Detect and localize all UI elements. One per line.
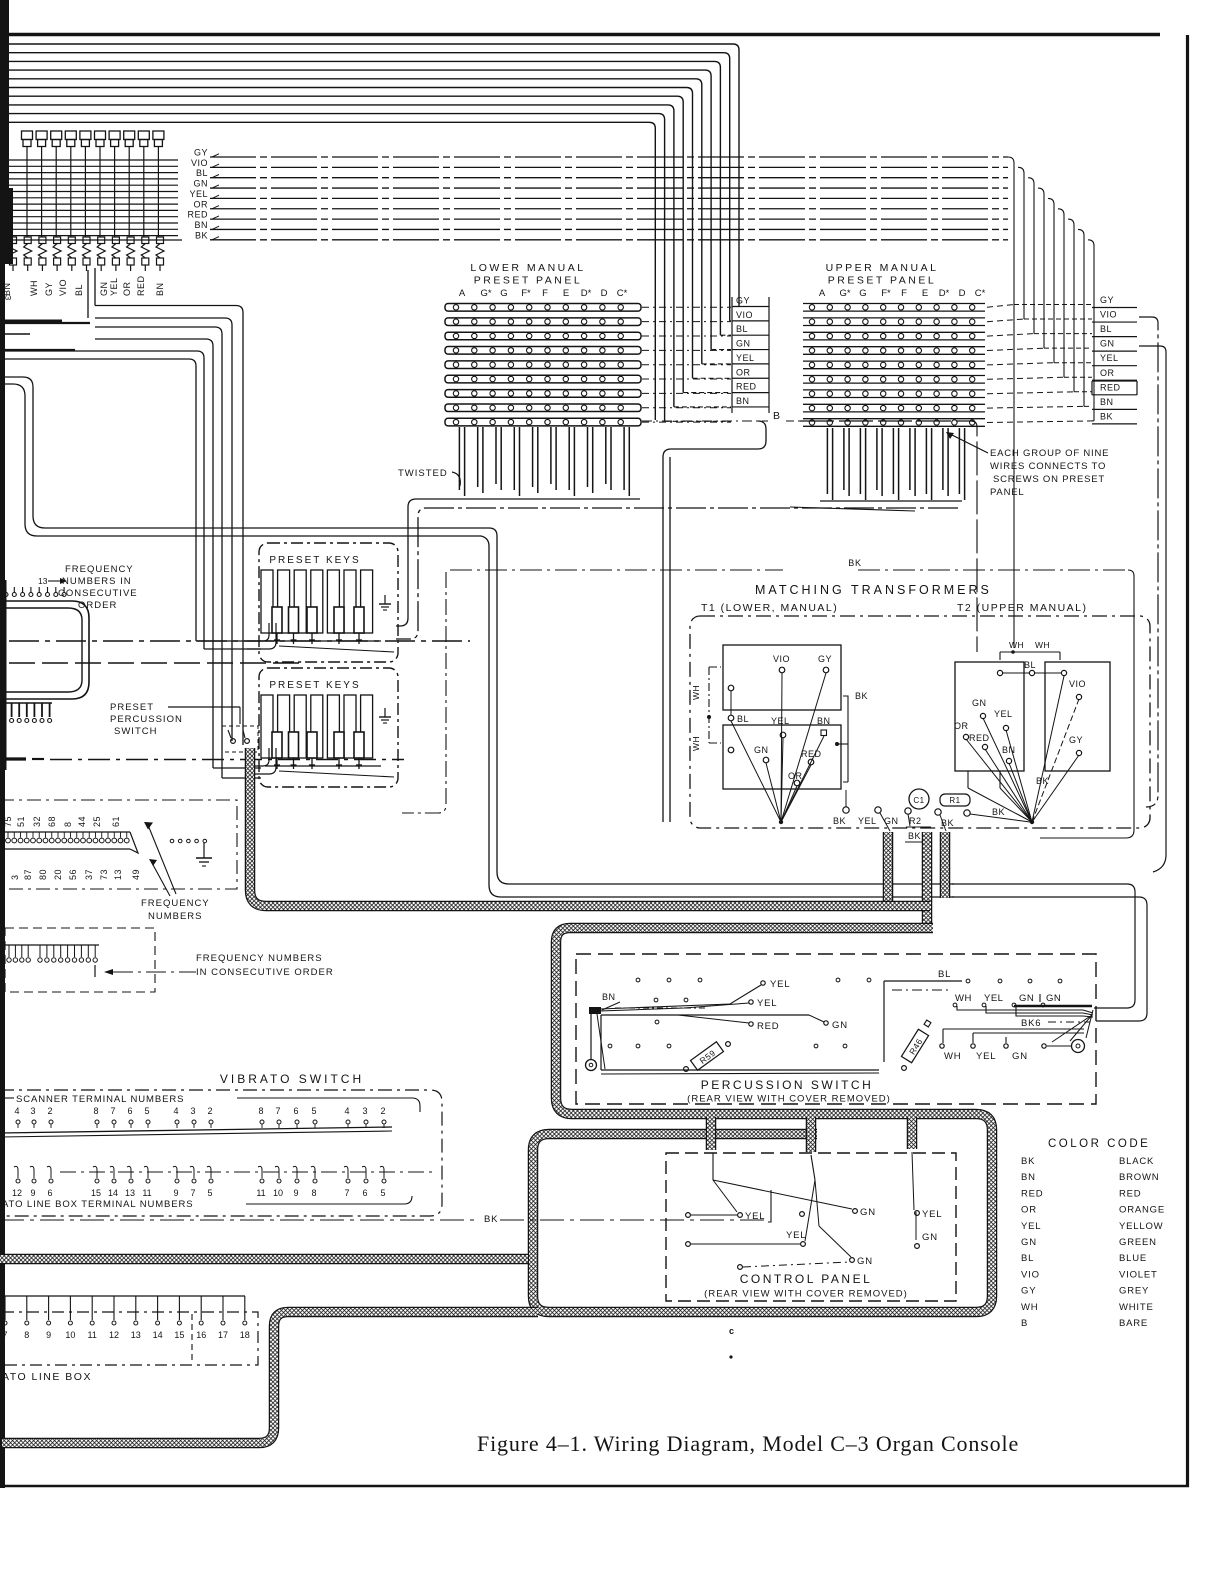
svg-text:OR: OR xyxy=(194,199,209,209)
cable: preset percussion to transformers harness xyxy=(250,748,930,906)
svg-text:GY: GY xyxy=(1069,735,1083,745)
label ladder: lower panel wire colours xyxy=(732,296,769,414)
svg-text:WH: WH xyxy=(1035,640,1050,650)
svg-text:GY: GY xyxy=(736,296,750,306)
svg-text:F*: F* xyxy=(521,288,531,299)
svg-text:10: 10 xyxy=(273,1188,283,1198)
svg-text:6: 6 xyxy=(47,1188,52,1198)
svg-text:GN: GN xyxy=(1021,1237,1037,1248)
wire: B bus to T2 (vertical at x=977) xyxy=(800,421,977,652)
svg-text:D*: D* xyxy=(939,288,950,299)
svg-text:VIO: VIO xyxy=(773,654,790,664)
svg-text:BLUE: BLUE xyxy=(1119,1253,1147,1264)
svg-text:BL: BL xyxy=(1100,324,1112,334)
svg-text:8: 8 xyxy=(93,1106,98,1116)
svg-text:49: 49 xyxy=(131,869,141,880)
svg-text:D: D xyxy=(959,288,966,299)
svg-text:F*: F* xyxy=(881,288,891,299)
svg-text:13: 13 xyxy=(113,869,123,880)
svg-text:G: G xyxy=(859,288,866,299)
svg-text:BL: BL xyxy=(938,969,951,980)
svg-text:RED: RED xyxy=(736,382,757,392)
svg-text:5: 5 xyxy=(380,1188,385,1198)
svg-text:BL: BL xyxy=(196,168,208,178)
svg-text:WHITE: WHITE xyxy=(1119,1302,1154,1313)
svg-text:BN: BN xyxy=(1100,397,1114,407)
svg-text:WH: WH xyxy=(691,685,701,700)
svg-text:BK: BK xyxy=(1100,411,1113,421)
lower manual preset panel xyxy=(445,262,731,426)
svg-text:2: 2 xyxy=(47,1106,52,1116)
svg-text:YEL: YEL xyxy=(771,716,790,726)
svg-text:GN: GN xyxy=(736,339,751,349)
svg-text:GN: GN xyxy=(1012,1051,1028,1062)
svg-text:BN: BN xyxy=(1002,745,1016,755)
svg-text:GN: GN xyxy=(972,698,987,708)
percussion switch right-hand wiring xyxy=(884,969,1093,1062)
svg-text:MATCHING TRANSFORMERS: MATCHING TRANSFORMERS xyxy=(755,583,992,597)
svg-text:UPPER MANUAL: UPPER MANUAL xyxy=(826,262,939,274)
svg-text:E: E xyxy=(922,288,928,299)
wire pair: into percussion switch right side xyxy=(952,884,1135,1008)
svg-text:2: 2 xyxy=(207,1106,212,1116)
svg-text:G*: G* xyxy=(839,288,850,299)
svg-text:GN: GN xyxy=(194,179,209,189)
transformer T2 xyxy=(954,640,1110,788)
svg-text:BL: BL xyxy=(737,714,749,724)
svg-text:BK6: BK6 xyxy=(1021,1018,1041,1029)
svg-text:FREQUENCY: FREQUENCY xyxy=(141,898,210,909)
control panel assembly xyxy=(666,1152,956,1301)
labels: contact wire colours (rotated) xyxy=(2,275,165,296)
page border: left black bar xyxy=(0,0,9,252)
svg-text:WH: WH xyxy=(691,736,701,751)
svg-text:9: 9 xyxy=(173,1188,178,1198)
vibrato line box terminal row xyxy=(2,1166,437,1210)
svg-text:G: G xyxy=(500,288,507,299)
wires: T2 fan-out to cable xyxy=(966,676,1079,824)
svg-text:YEL: YEL xyxy=(984,993,1003,1004)
svg-text:OR: OR xyxy=(954,721,969,731)
svg-text:BL: BL xyxy=(74,284,84,296)
svg-text:F: F xyxy=(901,288,907,299)
svg-text:5: 5 xyxy=(207,1188,212,1198)
svg-text:T1 (LOWER, MANUAL): T1 (LOWER, MANUAL) xyxy=(701,602,838,614)
svg-text:11: 11 xyxy=(142,1188,151,1198)
svg-text:7: 7 xyxy=(110,1106,115,1116)
page border: bottom rule xyxy=(5,1485,1189,1488)
svg-text:YEL: YEL xyxy=(1021,1221,1041,1232)
preset keys group 1 (upper) xyxy=(247,543,398,662)
wire stubs: left edge generator leads xyxy=(0,322,90,324)
svg-text:T2 (UPPER MANUAL): T2 (UPPER MANUAL) xyxy=(957,602,1088,614)
svg-text:F: F xyxy=(542,288,548,299)
svg-text:GN: GN xyxy=(832,1020,848,1031)
svg-text:5: 5 xyxy=(144,1106,149,1116)
svg-text:BK: BK xyxy=(855,691,868,701)
label list: upper panel wire colours xyxy=(1092,295,1137,424)
svg-text:G*: G* xyxy=(480,288,491,299)
svg-text:BN: BN xyxy=(155,282,165,296)
wire comb: twisted pairs below lower panel xyxy=(459,427,629,496)
svg-text:BK: BK xyxy=(833,816,846,826)
svg-text:BK: BK xyxy=(195,230,208,240)
svg-text:PRESET KEYS: PRESET KEYS xyxy=(269,680,360,691)
cable: transformer tails (hatched) xyxy=(883,832,894,901)
wire comb: twisted pairs below upper panel xyxy=(790,428,965,511)
wire: VIO/GN runs down right margin to percussion switch xyxy=(1139,317,1158,807)
preset keys group 2 (lower) xyxy=(247,668,398,787)
svg-text:YELLOW: YELLOW xyxy=(1119,1221,1163,1232)
resistor R46 xyxy=(901,1020,931,1070)
svg-text:RED: RED xyxy=(801,749,822,759)
svg-text:IN CONSECUTIVE ORDER: IN CONSECUTIVE ORDER xyxy=(196,967,334,978)
svg-text:12: 12 xyxy=(12,1188,22,1198)
svg-text:3: 3 xyxy=(30,1106,35,1116)
wire BK: long run to transformers xyxy=(450,569,783,571)
svg-text:YEL: YEL xyxy=(922,1209,942,1220)
svg-text:YEL: YEL xyxy=(736,353,755,363)
svg-text:YEL: YEL xyxy=(770,979,790,990)
svg-text:GN: GN xyxy=(1019,993,1034,1004)
svg-text:GN: GN xyxy=(1100,339,1115,349)
wire: common run under lower panel xyxy=(396,499,640,626)
svg-text:61: 61 xyxy=(111,816,121,827)
svg-text:WIRES CONNECTS TO: WIRES CONNECTS TO xyxy=(990,461,1106,472)
svg-text:RED: RED xyxy=(1119,1188,1141,1199)
svg-text:VIO: VIO xyxy=(1021,1269,1040,1280)
label: frequency numbers in consecutive order (lower) xyxy=(196,953,334,978)
svg-text:OR: OR xyxy=(122,281,132,296)
svg-text:RED: RED xyxy=(136,275,146,296)
svg-text:WH: WH xyxy=(955,993,972,1004)
svg-text:3: 3 xyxy=(362,1106,367,1116)
svg-text:BARE: BARE xyxy=(1119,1318,1148,1329)
svg-text:13: 13 xyxy=(38,576,48,586)
label: preset percussion switch xyxy=(110,702,240,737)
svg-text:8: 8 xyxy=(63,821,73,827)
svg-text:73: 73 xyxy=(99,869,109,880)
page border: top rule xyxy=(6,33,1160,37)
connector: generator terminal hooks (upper row) xyxy=(4,587,66,597)
svg-text:BN: BN xyxy=(194,220,208,230)
svg-text:C*: C* xyxy=(617,288,628,299)
callout: frequency numbers xyxy=(141,822,210,922)
svg-text:OR: OR xyxy=(1100,368,1115,378)
svg-text:BL: BL xyxy=(1024,660,1036,670)
svg-text:BK: BK xyxy=(992,807,1005,817)
svg-text:YEL: YEL xyxy=(189,189,208,199)
svg-text:OR: OR xyxy=(736,367,751,377)
svg-text:VIO: VIO xyxy=(1100,310,1117,320)
wire: long dashed run under preset keys group 2 xyxy=(0,757,26,760)
svg-text:BROWN: BROWN xyxy=(1119,1172,1159,1183)
percussion switch assembly xyxy=(576,954,1096,1104)
svg-text:7: 7 xyxy=(344,1188,349,1198)
svg-text:12: 12 xyxy=(109,1330,119,1340)
svg-text:TWISTED: TWISTED xyxy=(398,468,448,479)
svg-text:VIO: VIO xyxy=(191,158,208,168)
matching transformers section xyxy=(690,583,1150,828)
resistor R59 xyxy=(684,1042,731,1072)
svg-text:18: 18 xyxy=(240,1330,250,1340)
svg-text:ORANGE: ORANGE xyxy=(1119,1205,1165,1216)
svg-text:SWITCH: SWITCH xyxy=(114,726,157,737)
callout: each group of nine wires xyxy=(946,432,1109,498)
svg-text:2: 2 xyxy=(380,1106,385,1116)
svg-text:9: 9 xyxy=(30,1188,35,1198)
svg-text:LOWER MANUAL: LOWER MANUAL xyxy=(470,262,585,274)
svg-text:ω: ω xyxy=(5,293,11,302)
svg-text:Figure 4–1. Wiring Diagram, M: Figure 4–1. Wiring Diagram, Model C–3 Or… xyxy=(477,1431,1019,1456)
wire bus: contact row feed line xyxy=(0,239,182,241)
wire: riser x446 from BK line xyxy=(402,572,446,813)
svg-text:D*: D* xyxy=(581,288,592,299)
cable: percussion switch loop + control panel loop xyxy=(533,928,992,1312)
svg-text:20: 20 xyxy=(53,869,63,880)
svg-text:c: c xyxy=(729,1326,734,1336)
svg-text:VIO: VIO xyxy=(1069,679,1086,689)
svg-text:YEL: YEL xyxy=(786,1230,806,1241)
svg-text:C1: C1 xyxy=(913,796,924,805)
svg-text:(REAR VIEW WITH COVER REMOVED: (REAR VIEW WITH COVER REMOVED) xyxy=(687,1094,891,1105)
terminal strip: frequency numbers (scrambled order) xyxy=(0,800,237,889)
svg-text:GREY: GREY xyxy=(1119,1286,1149,1297)
connector strip: spring contacts row xyxy=(9,237,164,271)
svg-text:WH: WH xyxy=(1009,640,1024,650)
svg-text:13: 13 xyxy=(131,1330,141,1340)
wire: preset keys cable across to vertical riser xyxy=(0,377,954,884)
svg-text:16: 16 xyxy=(196,1330,206,1340)
svg-text:GN: GN xyxy=(1046,993,1061,1004)
svg-text:GN: GN xyxy=(754,745,769,755)
svg-text:YEL: YEL xyxy=(976,1051,996,1062)
svg-text:(REAR VIEW WITH COVER REMOV: (REAR VIEW WITH COVER REMOVED) xyxy=(704,1289,908,1300)
svg-text:OR: OR xyxy=(1021,1205,1037,1216)
svg-text:YEL: YEL xyxy=(858,816,877,826)
svg-text:25: 25 xyxy=(92,816,102,827)
cable: vibrato switch to control panel xyxy=(0,1254,528,1265)
ground: frequency strip ground xyxy=(170,839,212,866)
svg-text:6: 6 xyxy=(127,1106,132,1116)
svg-text:17: 17 xyxy=(218,1330,228,1340)
svg-text:5: 5 xyxy=(311,1106,316,1116)
svg-text:R1: R1 xyxy=(949,796,960,805)
vibrato switch section xyxy=(0,1072,442,1216)
svg-text:GY: GY xyxy=(1021,1286,1036,1297)
svg-text:15: 15 xyxy=(91,1188,101,1198)
svg-text:11: 11 xyxy=(256,1188,265,1198)
svg-text:GN: GN xyxy=(99,282,109,297)
svg-text:BN: BN xyxy=(602,992,616,1002)
svg-text:32: 32 xyxy=(32,816,42,827)
svg-text:PERCUSSION: PERCUSSION xyxy=(110,714,183,725)
svg-text:68: 68 xyxy=(47,816,57,827)
wire bundle: 10 wires from generator to lower-manual preset panel (top staircase) xyxy=(8,44,739,421)
svg-text:14: 14 xyxy=(153,1330,163,1340)
svg-text:13: 13 xyxy=(125,1188,135,1198)
svg-text:7: 7 xyxy=(190,1188,195,1198)
svg-text:YEL: YEL xyxy=(109,277,119,296)
svg-text:GN: GN xyxy=(922,1232,938,1243)
switch: preset percussion switch contacts xyxy=(222,726,258,752)
wire bundle: 9 colour-labelled wires to upper-manual preset panel xyxy=(187,148,1094,649)
svg-text:75: 75 xyxy=(3,816,13,827)
svg-text:11: 11 xyxy=(88,1330,97,1340)
svg-text:8: 8 xyxy=(311,1188,316,1198)
label: frequency numbers in consecutive order (upper) xyxy=(38,564,138,611)
svg-text:NUMBERS: NUMBERS xyxy=(148,911,203,922)
upper manual preset panel xyxy=(803,262,1094,426)
svg-text:GY: GY xyxy=(818,654,832,664)
wire: twisted pairs from connector down to preset keys xyxy=(0,268,261,778)
svg-text:BK: BK xyxy=(908,831,921,841)
svg-text:RED: RED xyxy=(969,733,990,743)
svg-text:VIBRATO SWITCH: VIBRATO SWITCH xyxy=(220,1072,364,1086)
svg-text:YEL: YEL xyxy=(994,709,1013,719)
svg-text:BK: BK xyxy=(848,558,862,568)
svg-text:ATO LINE BOX: ATO LINE BOX xyxy=(2,1371,92,1383)
color code table xyxy=(1021,1138,1165,1329)
cable: stubs into control panel xyxy=(706,1117,717,1150)
svg-text:CONTROL PANEL: CONTROL PANEL xyxy=(740,1272,873,1286)
svg-text:8: 8 xyxy=(258,1106,263,1116)
wire bundle: generator leads from left edge xyxy=(8,160,178,236)
wire: dashed runs across generator area xyxy=(9,640,470,642)
generator cable loop (large bracket) xyxy=(0,601,89,699)
svg-text:8: 8 xyxy=(24,1330,29,1340)
cable: vibrato line box loop xyxy=(2,1312,538,1443)
svg-text:PRESET PANEL: PRESET PANEL xyxy=(828,275,936,287)
svg-text:7: 7 xyxy=(275,1106,280,1116)
svg-text:WH: WH xyxy=(1021,1302,1038,1313)
svg-text:9: 9 xyxy=(293,1188,298,1198)
svg-text:RED: RED xyxy=(1021,1188,1043,1199)
svg-text:56: 56 xyxy=(68,869,78,880)
svg-text:BL: BL xyxy=(1021,1253,1034,1264)
terminal strip: vibrato scanner feed (consecutive order) xyxy=(0,928,196,992)
svg-text:44: 44 xyxy=(77,816,87,827)
svg-text:BLACK: BLACK xyxy=(1119,1156,1154,1167)
wire: BK riser down transformer box right side xyxy=(1040,570,1134,838)
svg-text:B: B xyxy=(773,410,780,422)
svg-text:3: 3 xyxy=(10,874,20,880)
labels: percussion switch title xyxy=(687,1078,891,1105)
svg-text:NUMBERS IN: NUMBERS IN xyxy=(62,576,132,587)
svg-text:PANEL: PANEL xyxy=(990,487,1024,498)
svg-text:6: 6 xyxy=(362,1188,367,1198)
connector strip: generator output terminal lugs xyxy=(22,131,164,237)
svg-text:6: 6 xyxy=(293,1106,298,1116)
svg-text:B: B xyxy=(1021,1318,1028,1329)
svg-text:FREQUENCY: FREQUENCY xyxy=(65,564,134,575)
svg-text:VIOLET: VIOLET xyxy=(1119,1269,1158,1280)
svg-text:BN: BN xyxy=(1021,1172,1036,1183)
svg-text:GY: GY xyxy=(44,282,54,296)
svg-text:BN: BN xyxy=(817,716,831,726)
svg-text:15: 15 xyxy=(174,1330,184,1340)
svg-text:7: 7 xyxy=(2,1330,7,1340)
svg-text:BK: BK xyxy=(1021,1156,1035,1167)
svg-text:YEL: YEL xyxy=(757,998,777,1009)
svg-text:51: 51 xyxy=(16,816,26,827)
svg-text:9: 9 xyxy=(46,1330,51,1340)
svg-text:37: 37 xyxy=(84,869,94,880)
vibrato line box terminal strip xyxy=(0,1296,258,1383)
svg-text:SCANNER TERMINAL NUMBERS: SCANNER TERMINAL NUMBERS xyxy=(16,1094,184,1105)
svg-text:87: 87 xyxy=(23,869,33,880)
svg-text:80: 80 xyxy=(38,869,48,880)
svg-text:CONSECUTIVE: CONSECUTIVE xyxy=(58,588,138,599)
svg-text:GREEN: GREEN xyxy=(1119,1237,1157,1248)
svg-text:C*: C* xyxy=(975,288,986,299)
svg-text:E: E xyxy=(563,288,569,299)
svg-text:BL: BL xyxy=(736,324,748,334)
svg-text:BK: BK xyxy=(484,1214,498,1225)
svg-text:4: 4 xyxy=(173,1106,178,1116)
svg-text:VIO: VIO xyxy=(736,310,753,320)
svg-text:COLOR CODE: COLOR CODE xyxy=(1048,1138,1150,1150)
svg-text:RED: RED xyxy=(757,1021,779,1032)
svg-text:EACH GROUP OF NINE: EACH GROUP OF NINE xyxy=(990,448,1109,459)
svg-text:GY: GY xyxy=(194,148,208,158)
svg-text:10: 10 xyxy=(65,1330,75,1340)
svg-text:4: 4 xyxy=(344,1106,349,1116)
components: C1 R1 R2 cluster xyxy=(833,789,1030,842)
svg-text:PRESET PANEL: PRESET PANEL xyxy=(474,275,582,287)
svg-text:PRESET: PRESET xyxy=(110,702,154,713)
svg-text:YEL: YEL xyxy=(745,1211,765,1222)
page border: right rule xyxy=(1186,35,1189,1487)
svg-text:PERCUSSION SWITCH: PERCUSSION SWITCH xyxy=(701,1078,874,1092)
svg-text:ATO LINE BOX TERMINAL NUMBE: ATO LINE BOX TERMINAL NUMBERS xyxy=(2,1199,194,1210)
svg-text:WH: WH xyxy=(29,280,39,296)
svg-text:FREQUENCY NUMBERS: FREQUENCY NUMBERS xyxy=(196,953,323,964)
svg-text:VIO: VIO xyxy=(58,279,68,296)
wire stub: left edge heavy mark xyxy=(0,320,62,323)
svg-text:BK: BK xyxy=(1036,776,1049,786)
svg-text:RED: RED xyxy=(1100,382,1121,392)
svg-text:3: 3 xyxy=(190,1106,195,1116)
svg-text:A: A xyxy=(459,288,466,299)
connector: generator terminal comb (lower row) xyxy=(0,703,52,723)
svg-text:R2: R2 xyxy=(909,816,922,826)
svg-text:A: A xyxy=(819,288,826,299)
svg-text:BN: BN xyxy=(736,396,750,406)
svg-text:WH: WH xyxy=(944,1051,961,1062)
svg-text:GY: GY xyxy=(1100,295,1114,305)
svg-text:4: 4 xyxy=(14,1106,19,1116)
wires: T1 fan-out to cable xyxy=(731,673,826,824)
wire: pair from lower panel B row down to transformer T1 xyxy=(663,421,766,822)
svg-text:YEL: YEL xyxy=(1100,353,1119,363)
svg-text:PRESET KEYS: PRESET KEYS xyxy=(269,555,360,566)
svg-text:RED: RED xyxy=(187,210,208,220)
svg-text:D: D xyxy=(601,288,608,299)
svg-text:14: 14 xyxy=(108,1188,118,1198)
svg-text:GN: GN xyxy=(857,1256,873,1267)
wire: BK from vibrato to control panel xyxy=(0,1190,771,1225)
svg-text:SCREWS ON PRESET: SCREWS ON PRESET xyxy=(993,474,1105,485)
transformer T1 xyxy=(691,645,868,789)
svg-text:GN: GN xyxy=(860,1207,876,1218)
